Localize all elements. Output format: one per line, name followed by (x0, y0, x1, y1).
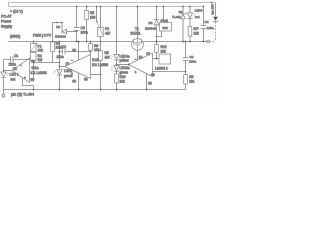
node on top line (211, 2, 213, 4)
node (3, 70, 5, 72)
svg-text:R6: R6 (189, 75, 193, 79)
svg-text:red: red (11, 78, 16, 82)
LED1 (3, 71, 5, 90)
svg-text:C2: C2 (62, 45, 66, 49)
pin5 wire (91, 74, 101, 76)
resistor R10 (116, 71, 118, 74)
resistor R2 (33, 52, 35, 53)
capacitor C3 (76, 6, 78, 8)
op-amp IC3 (129, 53, 153, 77)
node (59, 66, 61, 68)
svg-text:IC1b: IC1b (92, 58, 99, 62)
svg-text:1k5: 1k5 (194, 32, 199, 36)
svg-text:LED2a: LED2a (120, 66, 130, 70)
TL431 D1 (182, 6, 184, 8)
resistor R5 (86, 6, 88, 8)
svg-text:pin (3) TL494: pin (3) TL494 (11, 92, 35, 97)
diode D2 (156, 6, 158, 8)
fan box (163, 6, 165, 8)
op-amp IC1a (12, 58, 30, 83)
svg-text:yellow: yellow (120, 59, 130, 63)
svg-text:C1: C1 (14, 54, 18, 58)
wire: C1 feedback (4, 59, 30, 61)
svg-text:IC1a: IC1a (32, 66, 39, 70)
op-amp IC1b (65, 55, 91, 79)
svg-text:R10: R10 (120, 75, 126, 79)
svg-text:Power: Power (1, 20, 12, 24)
svg-text:(2): (2) (151, 72, 155, 76)
svg-text:(8): (8) (72, 48, 76, 52)
bottom rail (4, 89, 186, 91)
svg-text:fan 12V: fan 12V (211, 4, 215, 14)
svg-text:(7): (7) (66, 61, 70, 65)
svg-text:–: – (71, 58, 73, 62)
pin8 stub (78, 42, 80, 61)
C2 column wire (59, 41, 61, 43)
wire (3, 60, 5, 71)
pin4 stub (78, 73, 80, 90)
svg-text:+: + (197, 26, 199, 30)
resistor R6 10k (90, 41, 92, 43)
svg-text:LM358 1: LM358 1 (155, 66, 168, 70)
capacitor C2 (60, 49, 91, 55)
svg-text:+ (12 V): + (12 V) (10, 10, 23, 14)
svg-text:+: + (71, 72, 73, 76)
svg-text:100n: 100n (189, 60, 196, 64)
svg-text:–: – (20, 63, 22, 67)
svg-text:(GND): (GND) (10, 35, 20, 39)
svg-text:(Fan): (Fan) (161, 18, 168, 22)
svg-text:500: 500 (163, 26, 168, 30)
svg-text:red: red (195, 15, 200, 19)
fan dashed line (215, 22, 217, 42)
mid rail terminal circle (207, 40, 210, 43)
bottom terminal circle (2, 94, 5, 97)
capacitor C4 (203, 6, 205, 8)
C6 column (185, 41, 187, 43)
svg-text:D2: D2 (149, 21, 153, 25)
svg-text:C4: C4 (205, 20, 209, 24)
potentiometer P1 (33, 41, 35, 43)
svg-text:Supply: Supply (1, 25, 12, 29)
LED3 (189, 6, 191, 8)
top bus upper line (9, 2, 216, 4)
svg-text:4k7: 4k7 (105, 56, 110, 60)
wire to pin3 (30, 61, 34, 79)
resistor R9 (100, 41, 102, 43)
svg-text:1k5: 1k5 (90, 16, 95, 20)
wire: IC1a output (4, 70, 13, 72)
svg-text:green: green (120, 71, 129, 75)
wire (3, 90, 5, 95)
svg-text:LED3: LED3 (195, 8, 203, 12)
svg-text:+: + (24, 76, 26, 80)
pin6 corner (90, 51, 92, 53)
svg-text:P0E2 | 3 PV: P0E2 | 3 PV (33, 34, 52, 38)
svg-text:LED 1: LED 1 (10, 73, 19, 77)
svg-text:1M: 1M (38, 58, 43, 62)
svg-text:1N4148: 1N4148 (145, 26, 156, 30)
top bus lower line (+12V rail) (9, 6, 204, 8)
svg-text:C6: C6 (190, 55, 194, 59)
lower input wire (153, 71, 186, 73)
LED2 (59, 67, 61, 70)
IC1a pin4 stub (23, 78, 34, 90)
diode D3 (53, 23, 63, 42)
svg-text:BUZ11: BUZ11 (131, 31, 141, 35)
svg-text:4k7: 4k7 (105, 32, 110, 36)
svg-text:–: – (135, 57, 137, 61)
svg-text:P2: P2 (105, 27, 109, 31)
potentiometer P2 (96, 6, 98, 8)
svg-text:R9: R9 (105, 51, 109, 55)
wire R4 to node (34, 52, 60, 63)
svg-text:R5: R5 (90, 11, 94, 15)
capacitor C1 (11, 57, 14, 63)
svg-text:47k: 47k (38, 49, 44, 53)
LED4 (114, 54, 119, 60)
LED5 (114, 66, 119, 72)
fan diode symbol (213, 17, 218, 21)
svg-text:D3: D3 (56, 25, 60, 29)
svg-text:C3: C3 (81, 26, 85, 30)
svg-text:(4): (4) (148, 81, 152, 85)
svg-text:100n: 100n (207, 26, 214, 30)
svg-text:1k2: 1k2 (120, 80, 125, 84)
svg-text:(7): (7) (146, 51, 150, 55)
IC3 pin4 stub (146, 74, 148, 90)
resistor R6b (185, 72, 187, 75)
mid rail dashed continuation (210, 41, 215, 43)
top bus left end cap (8, 3, 10, 7)
svg-text:220n: 220n (57, 55, 64, 59)
svg-text:(4): (4) (72, 79, 76, 83)
svg-text:TL431: TL431 (172, 15, 181, 19)
resistor R4 (52, 41, 54, 43)
svg-text:D1: D1 (179, 10, 183, 14)
resistor R7 (188, 27, 192, 37)
resistor R12 (156, 41, 158, 43)
IC2 box (159, 54, 171, 64)
mid rail GND (9, 41, 207, 43)
svg-text:1k1: 1k1 (189, 80, 194, 84)
svg-text:+: + (135, 71, 137, 75)
svg-text:IC1 LM358: IC1 LM358 (31, 71, 47, 75)
svg-text:(5): (5) (84, 77, 88, 81)
svg-text:1N4148: 1N4148 (55, 35, 66, 39)
svg-text:PC-AT: PC-AT (1, 15, 12, 19)
LED column wire (116, 6, 118, 8)
svg-text:10k: 10k (161, 49, 167, 53)
